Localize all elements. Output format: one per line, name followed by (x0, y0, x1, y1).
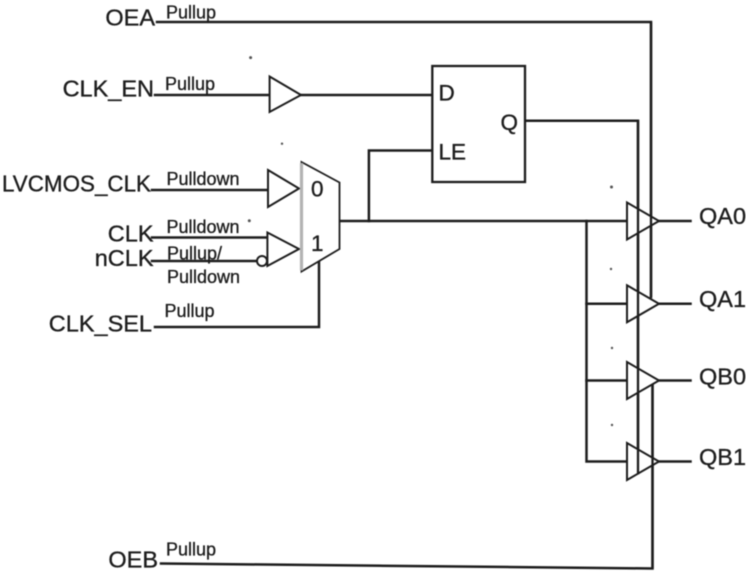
svg-text:1: 1 (311, 231, 324, 256)
svg-text:Pullup/: Pullup/ (167, 244, 222, 264)
svg-text:Pulldown: Pulldown (167, 169, 240, 189)
svg-text:D: D (439, 81, 455, 106)
svg-text:Pullup: Pullup (165, 301, 215, 321)
svg-text:CLK: CLK (108, 221, 154, 247)
svg-text:Pulldown: Pulldown (167, 267, 240, 287)
svg-text:QA1: QA1 (699, 286, 746, 312)
svg-text:CLK_EN: CLK_EN (63, 76, 154, 102)
svg-text:LVCMOS_CLK: LVCMOS_CLK (2, 171, 151, 197)
svg-text:CLK_SEL: CLK_SEL (49, 311, 152, 337)
svg-text:QA0: QA0 (699, 203, 746, 229)
svg-text:Pullup: Pullup (165, 74, 215, 94)
svg-text:QB1: QB1 (699, 444, 746, 470)
svg-text:OEA: OEA (105, 5, 155, 31)
svg-text:Pullup: Pullup (166, 540, 216, 560)
svg-text:Q: Q (501, 110, 519, 135)
svg-text:Pullup: Pullup (166, 3, 216, 23)
svg-text:OEB: OEB (108, 547, 158, 571)
svg-text:QB0: QB0 (699, 364, 746, 390)
svg-text:0: 0 (311, 177, 324, 202)
svg-text:Pulldown: Pulldown (167, 217, 240, 237)
svg-text:nCLK: nCLK (95, 245, 154, 271)
svg-text:LE: LE (439, 140, 467, 165)
